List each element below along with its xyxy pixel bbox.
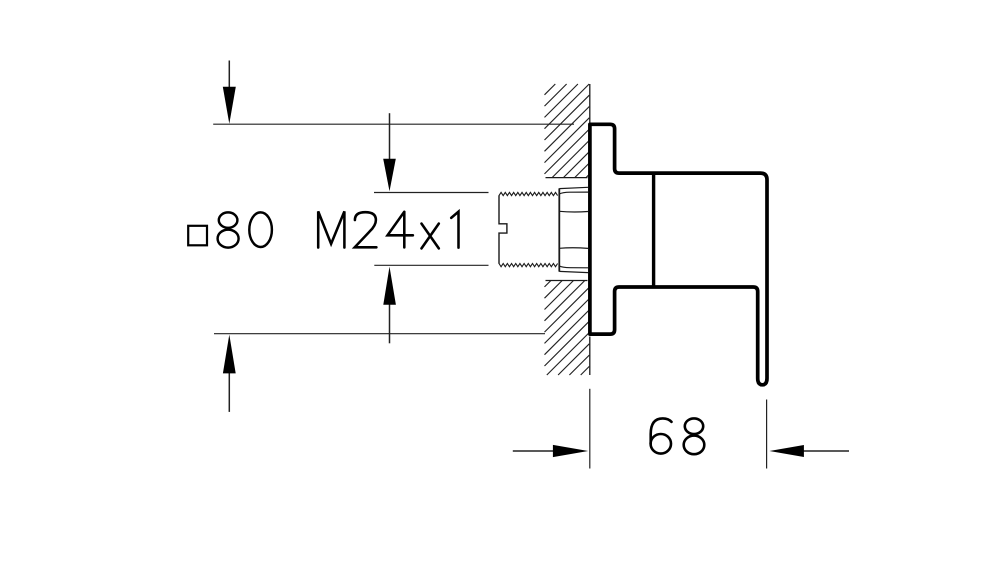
text M24x1 : digit 2 [355, 212, 377, 247]
text M24x1 : digit 4 [388, 212, 413, 248]
wall hole upper edge [546, 177, 588, 179]
bonnet nut top chamfer line [559, 192, 588, 194]
dim 80 bottom arrow shaft [228, 373, 230, 412]
bonnet nut lower facet line [559, 247, 588, 250]
bonnet nut left edge [558, 188, 560, 271]
text 80 : digit 0 [249, 212, 272, 247]
valve spindle body with notch [499, 195, 507, 263]
bonnet nut upper facet line [559, 210, 588, 213]
dim ext line 68 right [766, 400, 768, 469]
escutcheon/body joint line [652, 173, 655, 287]
dim line M24 upper [374, 192, 489, 194]
wall hole lower edge [546, 280, 588, 282]
wall face line above escutcheon [589, 84, 591, 123]
text 80 : digit 8 [218, 212, 239, 247]
wall hatch lower block [545, 281, 590, 376]
dim M24 upper arrow shaft [389, 113, 391, 159]
bonnet nut top edge [559, 187, 588, 188]
dim 68 right arrowhead [769, 445, 804, 457]
escutcheon and handle outer profile [590, 124, 767, 385]
spindle thread top zigzag [499, 192, 558, 195]
dim ext line 68 left [589, 389, 591, 469]
text 68 : digit 8 [684, 418, 705, 454]
dim M24 lower arrowhead [383, 267, 396, 305]
spindle thread bottom zigzag [499, 264, 558, 267]
bonnet nut bottom edge [559, 271, 588, 272]
dim line M24 lower [374, 264, 488, 266]
text M24x1 : letter x [422, 224, 439, 249]
dim ext line 80 bottom [214, 333, 545, 335]
dim 68 left arrowhead [553, 445, 588, 457]
text M24x1 : letter M [318, 211, 344, 247]
text M24x1 : digit 1 [451, 212, 458, 248]
dim 80 top arrowhead [223, 87, 236, 124]
wall face line below escutcheon [589, 337, 591, 376]
dim 68 right line [804, 450, 850, 452]
dim ext line 80 top [213, 123, 574, 125]
dim 80 bottom arrowhead [223, 335, 236, 374]
dim M24 upper arrowhead [383, 159, 396, 192]
dim M24 lower arrow shaft [389, 304, 391, 343]
square symbol of dimension 80 [188, 226, 207, 246]
bonnet nut bottom chamfer line [559, 266, 588, 268]
dim 68 left line [513, 450, 554, 452]
dim 80 top arrow shaft [228, 61, 230, 89]
wall hatch upper block [545, 84, 590, 178]
text 68 : digit 6 [651, 418, 672, 453]
